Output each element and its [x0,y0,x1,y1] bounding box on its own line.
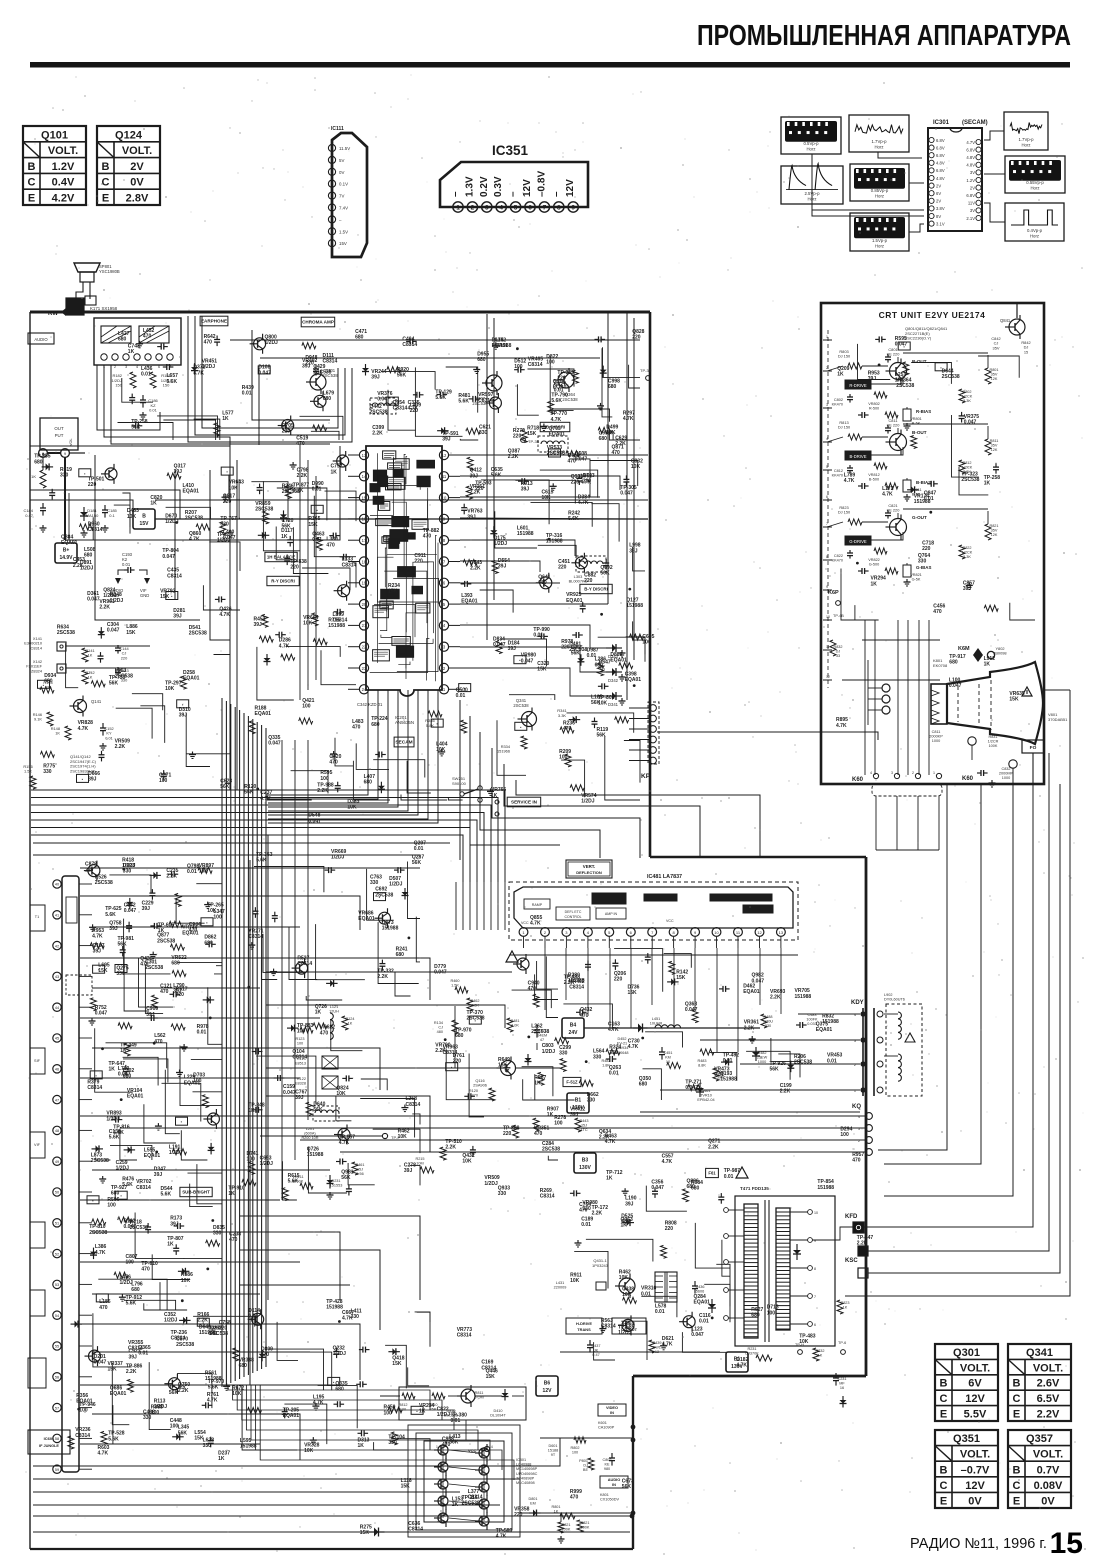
svg-text:4.7K: 4.7K [193,370,204,376]
svg-text:680: 680 [171,961,180,967]
svg-text:EQA01: EQA01 [610,657,627,663]
wire t9w7 [316,924,365,980]
capacitor t83 [150,925,154,927]
wire t8bw10 [220,1221,223,1268]
wire t8w18 [106,1043,167,1068]
svg-text:VR801: VR801 [910,417,922,421]
pin 9 U201 [439,514,448,523]
pin 4 U201 [439,621,448,630]
svg-text:680: 680 [84,553,93,559]
transistor t317 [337,455,349,467]
svg-text:EQA01: EQA01 [694,1300,711,1306]
svg-text:1.5K: 1.5K [451,984,459,988]
node t5b5 [175,521,178,524]
transistor t225 [489,397,501,409]
resistor R134 [452,1020,458,1034]
svg-text:5.6K: 5.6K [288,1179,299,1185]
resistor t147 [911,436,917,449]
svg-text:2.2K: 2.2K [770,995,781,1001]
wire right riser 6 [868,784,1060,1273]
pin 20 IC301 [976,170,981,175]
capacitor t212 [469,398,473,400]
svg-text:2SC538: 2SC538 [282,489,300,495]
svg-text:330: 330 [918,558,927,564]
svg-text:R801: R801 [551,1505,560,1509]
svg-text:0.047: 0.047 [258,370,271,376]
svg-text:39J: 39J [868,376,877,382]
node t85 [152,952,154,955]
svg-text:56K: 56K [313,1107,323,1113]
svg-text:R802: R802 [962,390,971,394]
svg-text:–0.7V: –0.7V [961,1464,990,1476]
svg-text:C8314: C8314 [128,1345,143,1351]
svg-text:SIF: SIF [34,1059,41,1063]
svg-text:18: 18 [362,559,367,564]
svg-text:56K: 56K [770,1067,780,1073]
wire t11w6 [523,1079,569,1100]
svg-text:VOLT.: VOLT. [960,1449,990,1461]
svg-text:C: C [102,177,110,189]
node t142 [929,511,932,514]
capacitor t830 [170,993,174,995]
svg-text:B: B [142,514,146,520]
svg-text:VR802: VR802 [868,402,880,406]
wire t4w9 [531,502,593,526]
wire t1w2 [163,420,215,440]
svg-text:35V: 35V [993,345,1000,350]
wire t7w5 [335,738,353,766]
pin 9 IC301 [929,198,934,203]
svg-text:Horz: Horz [874,145,883,150]
capacitor C821 [887,510,889,513]
coil L308 dashed [538,436,568,452]
node t843 [183,1044,185,1047]
svg-text:470: 470 [189,928,198,934]
svg-text:6.5V: 6.5V [1037,1393,1060,1405]
wire t11w0 [535,1074,575,1100]
capacitor t5b6 [215,598,219,600]
resistor t217 [521,430,527,443]
resistor bias network G [858,570,862,572]
svg-text:680: 680 [44,678,53,684]
capacitor t711 [337,782,339,786]
svg-text:B: B [28,161,36,173]
capacitor C127 [536,1025,538,1030]
svg-text:0.047: 0.047 [691,1332,704,1338]
svg-text:4.7K: 4.7K [260,796,271,802]
svg-text:2SC538: 2SC538 [130,1225,148,1231]
svg-text:14.9V: 14.9V [59,555,73,561]
svg-text:1K: 1K [281,534,288,540]
svg-text:C8314: C8314 [297,961,312,967]
node t8b6 [181,1299,184,1302]
resistor t1410 [903,362,909,375]
svg-text:1K: 1K [167,1242,174,1248]
wire t11w7 [614,949,663,992]
capacitor t419 [605,559,607,563]
capacitor t816 [128,922,130,926]
svg-text:470: 470 [154,1039,163,1045]
svg-text:D410: D410 [493,1409,502,1413]
svg-text:0.01: 0.01 [641,1291,651,1297]
pin 14 U101 [53,1280,61,1288]
svg-text:2SC538: 2SC538 [467,1016,485,1022]
svg-text:R812: R812 [398,1403,407,1407]
svg-text:470: 470 [261,1352,270,1358]
voltage table Q301 [935,1344,998,1421]
svg-text:R231: R231 [747,1347,756,1351]
resistor R484 [713,1068,719,1081]
svg-text:0.01: 0.01 [827,1058,837,1064]
node t834 [207,902,209,905]
wire t12w5 [682,1332,727,1352]
svg-text:5.6K: 5.6K [108,1436,119,1442]
pin 10 IC301 [929,206,934,211]
chroma left drops [299,444,301,700]
power box B+14.9V [55,543,77,563]
transistor Q432 [619,1278,635,1294]
wire t13w2 [193,1316,255,1326]
coil L303 dashed [576,556,606,572]
wires into KDY [798,1013,860,1015]
svg-text:E: E [940,1496,947,1508]
wire scopeB to IC301 [878,152,922,158]
wire t5w3 [122,493,130,534]
svg-text:10K: 10K [542,495,552,501]
node t42 [459,684,471,692]
svg-text:151988: 151988 [914,499,931,505]
svg-text:5: 5 [514,205,518,212]
svg-text:0.01: 0.01 [724,1174,734,1180]
capacitor t1514 [342,1077,346,1079]
capacitor t835 [205,943,209,945]
svg-text:10K: 10K [631,464,641,470]
svg-text:39J: 39J [470,473,479,479]
svg-text:12V: 12V [965,1393,985,1405]
svg-text:VOL: VOL [69,438,73,446]
svg-text:H-DRIVE: H-DRIVE [576,1321,592,1326]
wire t1w3 [194,419,220,440]
svg-text:15K: 15K [108,1367,118,1373]
wire t8w7 [193,1092,223,1125]
svg-text:330: 330 [43,769,52,775]
wire vert out row [584,1027,760,1029]
svg-text:0.01: 0.01 [141,372,151,378]
svg-text:330: 330 [60,473,69,479]
pin 18 U101 [53,1403,61,1411]
wire t14w2 [952,415,979,477]
wire t2w5 [381,372,435,390]
svg-text:IC481 LA7837: IC481 LA7837 [647,874,682,880]
capacitor t93 [254,907,256,911]
resistor t5b7 [220,522,226,535]
transistor U801-b3 [479,1499,489,1509]
svg-text:CX1050DV: CX1050DV [600,1498,619,1502]
svg-text:330: 330 [351,1314,360,1320]
wire t10w5 [446,1049,493,1100]
node pin8 [39,449,48,458]
wire t11w9 [710,1052,737,1081]
oscillogram box E (burst) [850,164,909,201]
svg-text:4.7K: 4.7K [313,1400,324,1406]
wire t15w2 [373,1129,420,1153]
transistor t95 [379,912,391,924]
svg-text:12UH: 12UH [329,1010,339,1014]
svg-text:220: 220 [665,1226,674,1232]
capacitor t1110 [587,961,589,965]
diode D461 [699,1083,701,1097]
svg-text:1000: 1000 [1002,776,1010,780]
svg-text:15K: 15K [194,1436,204,1442]
IC IC351 outline [440,162,588,207]
svg-text:Q357: Q357 [1026,1433,1053,1445]
svg-text:VR821: VR821 [910,573,922,577]
wire t13w15 [281,1352,332,1390]
svg-text:C437: C437 [591,1344,600,1348]
resistor R801 [985,368,991,384]
svg-text:2.2K: 2.2K [508,454,519,460]
wire right riser 2 [884,784,981,1164]
wire bus L6 [31,835,463,882]
svg-text:6.8V: 6.8V [936,138,945,143]
wire scopeC to IC301 [984,131,1004,140]
svg-text:680: 680 [371,722,380,728]
svg-text:2.2K: 2.2K [317,788,328,794]
svg-text:(SECAM): (SECAM) [962,120,988,126]
svg-text:0.08V: 0.08V [1034,1480,1063,1492]
T471 diode [796,1244,798,1260]
oscillogram box A (burst) [781,117,841,154]
svg-text:G-BIAS: G-BIAS [916,565,931,570]
svg-text:5.6K: 5.6K [126,1301,137,1307]
resistor R443 [575,1118,581,1132]
transistor t425 [575,557,587,569]
node t815 [90,1071,102,1079]
svg-text:151988: 151988 [307,1152,324,1158]
node t105 [444,1038,447,1041]
svg-text:C8314: C8314 [601,1324,616,1330]
svg-text:51: 51 [55,1222,59,1226]
svg-text:Horz: Horz [1030,234,1039,239]
resistor R181 [150,372,156,388]
capacitor t215 [595,338,599,340]
svg-text:KK470: KK470 [832,559,843,563]
svg-text:49: 49 [55,1160,59,1164]
svg-text:1K: 1K [621,1222,628,1228]
svg-text:15188: 15188 [548,1449,559,1453]
label G-DRIVE [845,536,871,545]
label H-DRIVE TRANS [566,1318,602,1334]
transistor U801-b0 [479,1448,489,1458]
svg-text:1K: 1K [358,1443,365,1449]
svg-text:B: B [940,1378,948,1390]
svg-text:1K: 1K [109,1067,116,1073]
svg-text:R802: R802 [570,1446,579,1450]
pin 13 U101 [53,1249,61,1257]
svg-text:5.6K: 5.6K [458,399,469,405]
node t53 [79,469,91,477]
capacitor t37 [286,555,288,559]
resistor t65 [91,681,105,687]
svg-text:6.8V: 6.8V [966,147,975,152]
pin 6 U101 [53,1034,61,1042]
svg-text:8: 8 [331,230,333,234]
svg-text:2.2V: 2.2V [1037,1409,1060,1421]
node t131 [411,1406,423,1414]
diode t8b16 [178,1270,190,1272]
svg-text:100: 100 [320,776,329,782]
svg-text:B+: B+ [63,548,70,554]
svg-text:MLC40898: MLC40898 [516,1481,535,1485]
resistor R232 [813,1348,819,1361]
diode t43 [580,654,582,666]
svg-text:2.1V: 2.1V [966,216,975,221]
pin 3 IC111 [328,168,335,175]
wire t2w1 [550,356,573,410]
svg-text:680: 680 [608,384,617,390]
wire t4w6 [515,480,575,503]
svg-text:0.047: 0.047 [964,420,977,426]
yoke coil V [898,1012,901,1019]
wire Q116 link [455,1006,500,1068]
svg-text:4.7K: 4.7K [551,417,562,423]
capacitor t716 [594,718,596,722]
resistor t47 [598,663,604,676]
wire t13w7 [112,1363,129,1425]
wires into KQ long [80,1115,865,1117]
wire right riser 5 [868,753,1049,1251]
pot VR211 [300,1183,313,1189]
svg-text:2.2K: 2.2K [297,473,308,479]
svg-text:8.8K: 8.8K [698,1064,706,1068]
pin 12 U101 [53,1219,61,1227]
wire t3w9 [286,647,341,657]
wire t15w6 [348,1163,375,1185]
node t13 [139,341,141,344]
svg-text:IC801: IC801 [516,1458,526,1462]
transistor t97 [296,962,308,974]
wire t11w1 [563,1004,612,1030]
svg-text:56K: 56K [622,1484,632,1490]
svg-text:220: 220 [922,546,931,552]
resistor t28 [466,428,480,434]
svg-text:0.047: 0.047 [268,741,281,747]
wire t8w15 [124,919,171,974]
resistor t416 [566,451,580,457]
resistor t74 [249,721,255,734]
svg-text:Q141: Q141 [91,699,102,704]
node t124 [602,1326,604,1329]
wire t7w10 [624,741,640,783]
wire bus L1 [31,798,498,883]
capacitor t94 [394,869,398,871]
svg-text:56K: 56K [341,1175,351,1181]
resistor R810 [432,1393,445,1399]
svg-text:FO: FO [1030,745,1037,751]
CRT warning triangle [1022,687,1032,696]
wire bus L0 [31,790,505,882]
svg-text:680: 680 [687,1184,696,1190]
svg-text:3.3K: 3.3K [963,399,971,403]
capacitor C143 [117,667,119,670]
resistor t1329 [68,1436,74,1449]
svg-text:R443: R443 [579,1119,588,1123]
svg-text:1K: 1K [55,731,60,736]
svg-text:5.6K: 5.6K [491,473,502,479]
svg-text:0.1: 0.1 [109,513,115,518]
wire t11w10 [771,1038,800,1061]
resistor bias network B [858,485,862,487]
diode t214 [602,366,604,378]
wire right riser 4 [864,784,1033,1227]
wire t9w5 [261,960,277,980]
svg-text:330: 330 [587,1098,596,1104]
svg-text:VOLT.: VOLT. [960,1362,990,1374]
svg-text:K171 SX1958: K171 SX1958 [90,306,118,311]
svg-text:4.8V: 4.8V [936,161,945,166]
svg-text:1.5V: 1.5V [339,229,348,234]
svg-text:4.8V: 4.8V [966,163,975,168]
pin 23 IC301 [976,147,981,152]
svg-text:1.5Vp-p: 1.5Vp-p [872,238,888,243]
svg-text:151988: 151988 [822,1019,839,1025]
coil L451 [655,1025,661,1028]
svg-text:12: 12 [442,453,447,458]
svg-text:3.1V: 3.1V [936,221,945,226]
pin 1 IC111 [328,144,335,151]
capacitor t430 [582,602,584,606]
svg-text:220: 220 [121,655,128,660]
svg-text:39J: 39J [173,614,182,620]
svg-text:470: 470 [160,989,169,995]
svg-text:0.1V: 0.1V [339,182,348,187]
resistor t108 [533,994,539,1007]
svg-text:330: 330 [479,430,488,436]
pin 12 U481 [755,928,764,937]
resistor R461 [352,1162,358,1175]
capacitor t420 [461,583,465,585]
svg-text:10K: 10K [336,1091,346,1097]
testpoint TP-6 [841,1350,846,1355]
svg-text:KW: KW [48,311,58,317]
svg-text:1K: 1K [120,1048,127,1054]
svg-text:0.047: 0.047 [377,397,390,403]
diode t912 [404,888,406,900]
svg-text:C8314: C8314 [540,1194,555,1200]
resistor t11 [214,423,220,436]
svg-text:E: E [940,1409,947,1421]
diode t810 [203,999,215,1001]
capacitor t91 [381,960,383,964]
resistor t831 [198,867,212,873]
svg-text:C812: C812 [834,469,843,473]
wire t12w9 [704,1284,730,1322]
svg-text:2.2K: 2.2K [470,566,481,572]
wire t15w4 [283,1161,297,1200]
svg-text:100: 100 [559,754,568,760]
svg-text:2SC538: 2SC538 [462,1501,480,1507]
node t824 [92,924,94,927]
svg-text:6: 6 [528,205,532,212]
wire t7w1 [497,720,526,775]
pin 19 IC301 [976,177,981,182]
wire t14w4 [841,569,879,621]
voltage table Q357 [1008,1430,1071,1508]
capacitor C802 [611,1453,613,1458]
svg-text:12V: 12V [965,1480,985,1492]
svg-text:1K: 1K [871,581,878,587]
svg-text:220: 220 [561,645,570,651]
